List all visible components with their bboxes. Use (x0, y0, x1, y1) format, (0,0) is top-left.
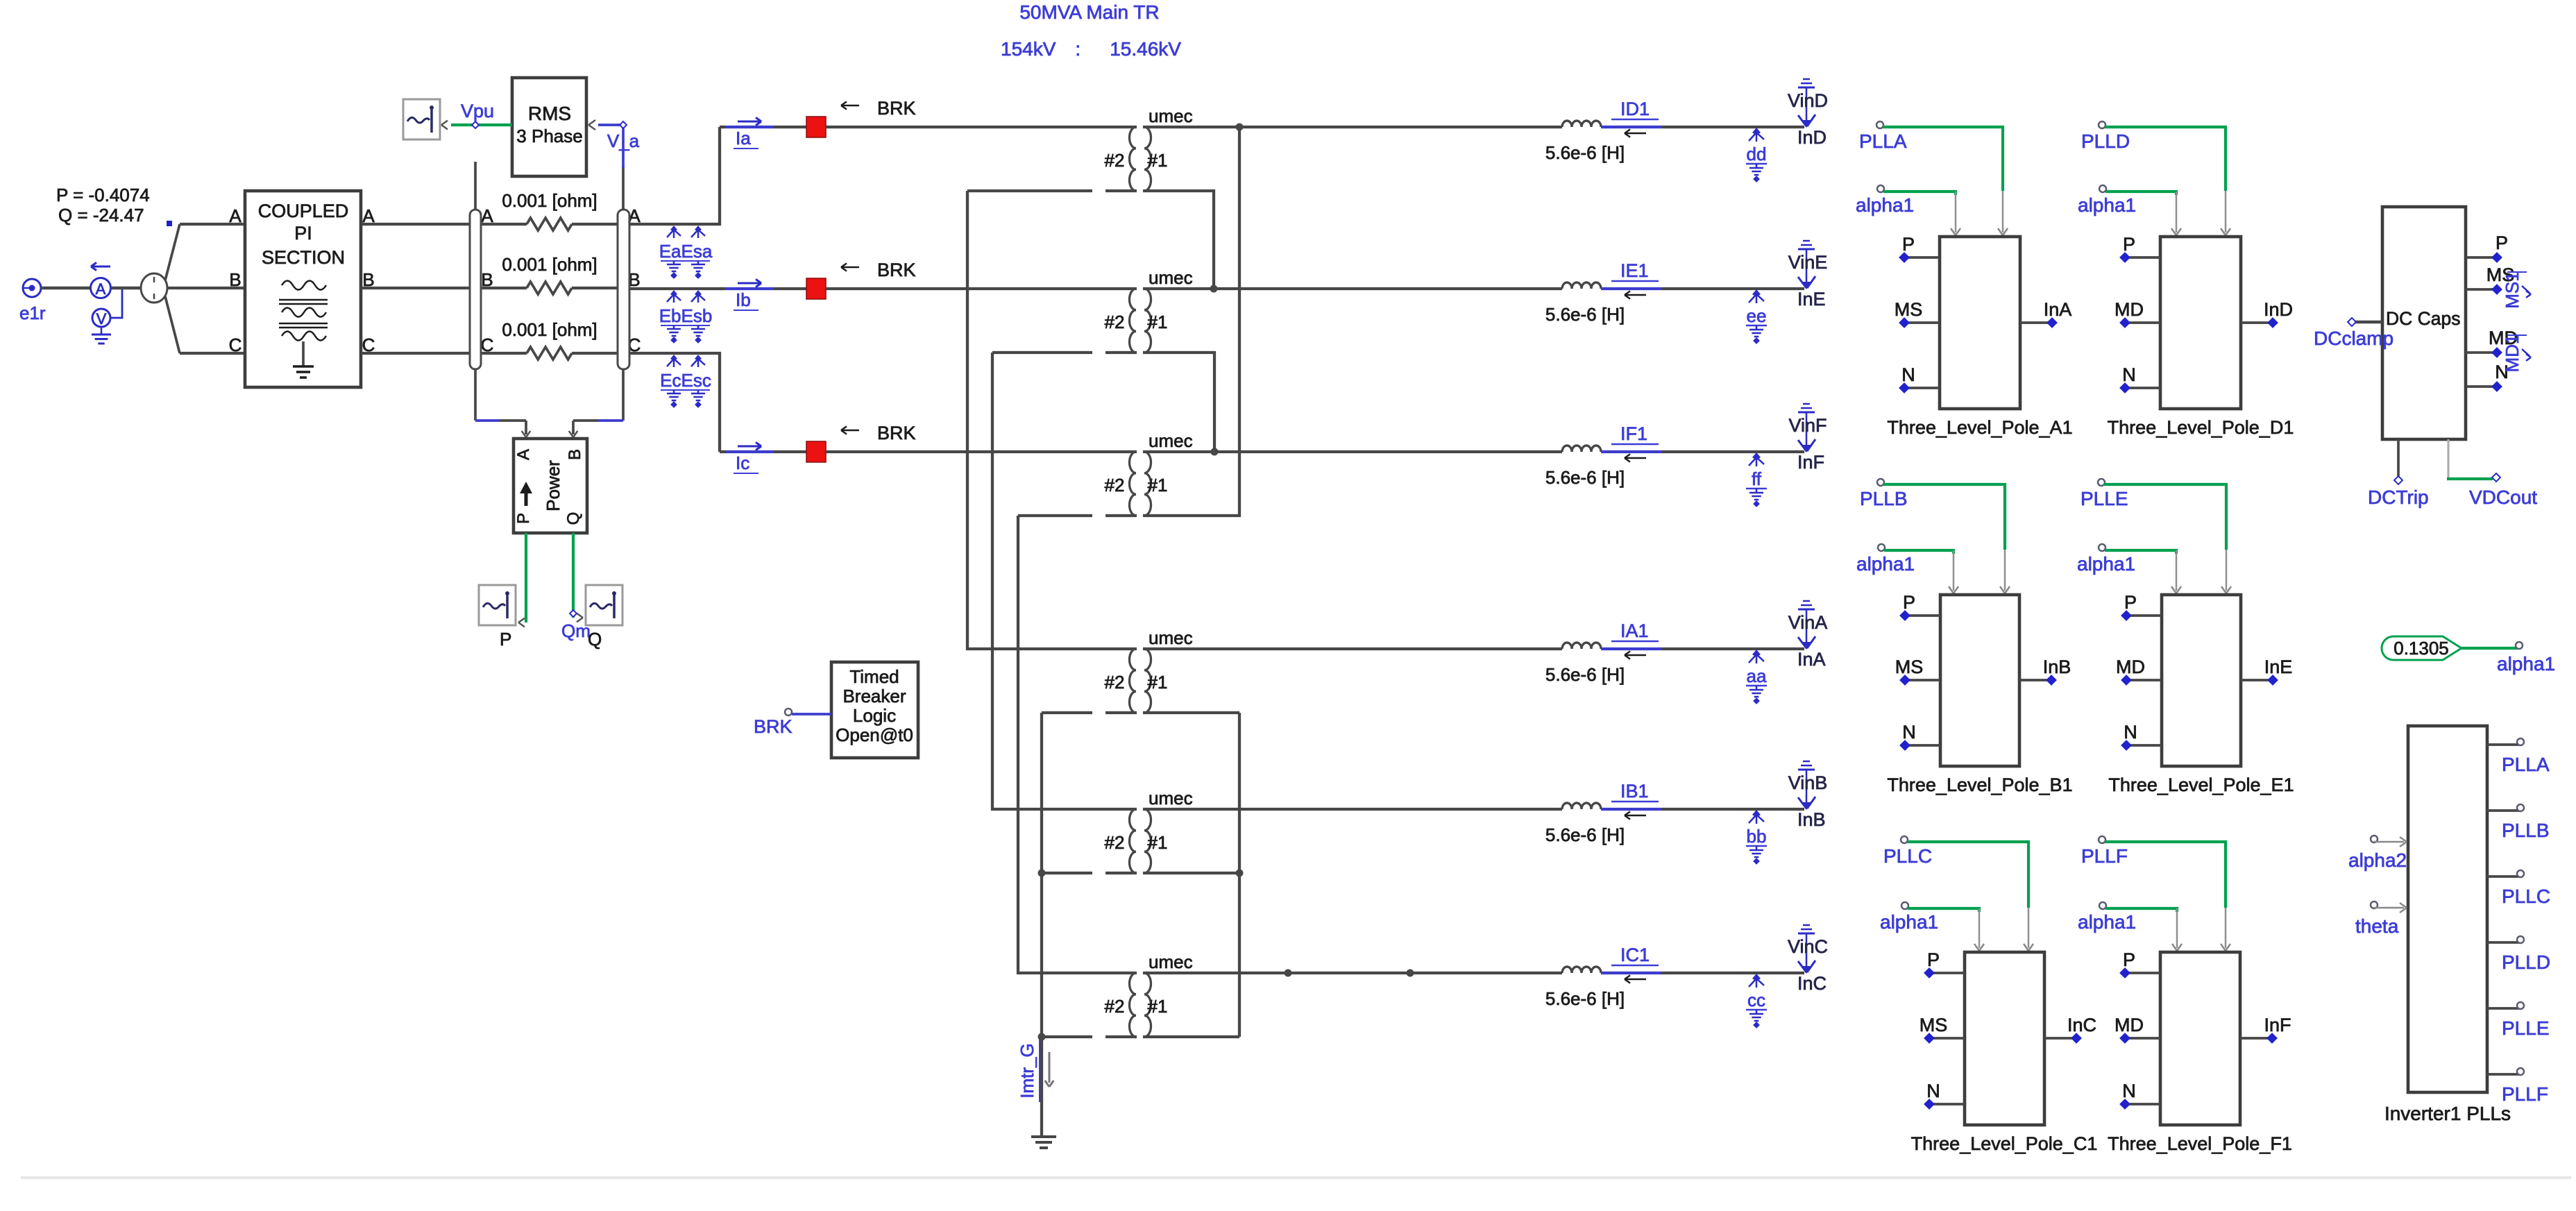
svg-text:umec: umec (1149, 627, 1193, 648)
svg-text:P: P (2495, 232, 2508, 253)
svg-text:N: N (1901, 364, 1915, 385)
svg-text:InF: InF (1797, 452, 1824, 473)
svg-text:MS1: MS1 (2502, 271, 2523, 308)
svg-text:PLLA: PLLA (1859, 130, 1907, 152)
svg-text:umec: umec (1149, 267, 1193, 288)
svg-text:MD: MD (2115, 299, 2144, 320)
svg-text:#1: #1 (1148, 475, 1168, 496)
svg-text:P = -0.4074: P = -0.4074 (56, 185, 150, 205)
svg-text:umec: umec (1149, 105, 1193, 126)
svg-text:VinE: VinE (1788, 252, 1828, 273)
svg-text:3 Phase: 3 Phase (516, 126, 582, 146)
svg-text:PLLF: PLLF (2081, 845, 2128, 867)
svg-text:InF: InF (2264, 1015, 2291, 1035)
svg-text:VinA: VinA (1788, 612, 1828, 633)
svg-text:bb: bb (1747, 826, 1767, 847)
svg-text:Imtr_G: Imtr_G (1017, 1043, 1037, 1098)
svg-text:theta: theta (2355, 915, 2399, 937)
svg-text:N: N (2122, 1081, 2136, 1101)
svg-text:Ib: Ib (736, 289, 751, 310)
svg-text:alpha1: alpha1 (1880, 911, 1938, 933)
svg-text:C: C (229, 334, 242, 355)
svg-text:RMS: RMS (528, 103, 571, 124)
svg-text:DC Caps: DC Caps (2386, 308, 2461, 329)
svg-text:Three_Level_Pole_F1: Three_Level_Pole_F1 (2108, 1133, 2292, 1154)
svg-text:Q: Q (564, 512, 583, 525)
svg-text:A: A (96, 280, 106, 298)
svg-text:5.6e-6 [H]: 5.6e-6 [H] (1545, 664, 1625, 685)
svg-text:umec: umec (1149, 951, 1193, 972)
svg-text:A: A (481, 205, 493, 226)
svg-text:IC1: IC1 (1620, 945, 1650, 965)
svg-text:Ia: Ia (736, 128, 751, 149)
svg-text:N: N (2124, 722, 2137, 743)
svg-text:umec: umec (1149, 788, 1193, 808)
svg-text:alpha1: alpha1 (1856, 194, 1914, 216)
svg-text:A: A (229, 205, 241, 226)
svg-text:Timed: Timed (849, 666, 899, 687)
svg-text:5.6e-6 [H]: 5.6e-6 [H] (1545, 824, 1625, 845)
svg-text:Power: Power (543, 460, 563, 511)
svg-text:#2: #2 (1105, 672, 1125, 693)
svg-text:Qm: Qm (561, 620, 591, 641)
svg-text:5.6e-6 [H]: 5.6e-6 [H] (1545, 142, 1625, 163)
svg-text:MD1: MD1 (2502, 334, 2523, 373)
svg-text:P: P (1902, 234, 1915, 255)
svg-text:VinB: VinB (1788, 772, 1828, 793)
svg-text:VinC: VinC (1788, 936, 1828, 957)
svg-text:#2: #2 (1105, 475, 1125, 496)
svg-text:P: P (2123, 234, 2135, 255)
svg-text:InA: InA (1797, 649, 1826, 670)
svg-text:InB: InB (2043, 657, 2071, 677)
svg-text:V_a: V_a (607, 130, 640, 151)
svg-text:#2: #2 (1105, 312, 1125, 332)
svg-text:Vpu: Vpu (461, 101, 494, 121)
svg-text:MS: MS (1920, 1015, 1948, 1035)
svg-text:N: N (2122, 364, 2136, 385)
svg-text:A: A (514, 449, 533, 460)
svg-text:#2: #2 (1105, 996, 1125, 1017)
svg-text:VinF: VinF (1788, 415, 1827, 436)
svg-text:B: B (566, 449, 584, 460)
svg-text:Q = -24.47: Q = -24.47 (58, 205, 144, 226)
svg-text:BRK: BRK (877, 260, 916, 280)
svg-text:#1: #1 (1148, 996, 1168, 1017)
svg-text:ee: ee (1747, 305, 1767, 326)
svg-text:P: P (500, 629, 511, 650)
svg-text:COUPLED: COUPLED (258, 201, 349, 221)
svg-text:VinD: VinD (1788, 90, 1828, 111)
svg-text:BRK: BRK (877, 423, 916, 443)
svg-text:P: P (514, 513, 533, 524)
svg-text:alpha1: alpha1 (2497, 653, 2555, 675)
svg-text:PLLB: PLLB (2502, 820, 2550, 841)
svg-text:PLLE: PLLE (2502, 1017, 2550, 1039)
svg-text:Three_Level_Pole_E1: Three_Level_Pole_E1 (2108, 774, 2294, 795)
svg-text:InD: InD (2264, 299, 2293, 320)
svg-text:PI: PI (294, 223, 312, 244)
svg-text:154kV : 15.46kV: 154kV : 15.46kV (1001, 38, 1181, 60)
svg-text:5.6e-6 [H]: 5.6e-6 [H] (1545, 988, 1625, 1009)
svg-text:Three_Level_Pole_A1: Three_Level_Pole_A1 (1887, 417, 2072, 438)
svg-text:ff: ff (1752, 468, 1762, 489)
svg-text:EaEsa: EaEsa (659, 241, 713, 262)
svg-text:Q: Q (588, 629, 602, 650)
svg-text:DCTrip: DCTrip (2368, 486, 2429, 508)
svg-text:IA1: IA1 (1620, 620, 1649, 641)
svg-text:alpha1: alpha1 (2077, 553, 2135, 575)
svg-text:InC: InC (1797, 973, 1827, 994)
svg-text:IB1: IB1 (1620, 781, 1649, 802)
svg-text:InE: InE (1797, 289, 1826, 310)
svg-text:alpha1: alpha1 (1856, 553, 1915, 575)
svg-text:MD: MD (2115, 1015, 2144, 1035)
svg-text:P: P (2124, 592, 2137, 613)
svg-text:InB: InB (1797, 809, 1826, 830)
svg-text:V: V (96, 310, 107, 328)
svg-text:5.6e-6 [H]: 5.6e-6 [H] (1545, 467, 1625, 488)
svg-text:EcEsc: EcEsc (660, 370, 711, 391)
svg-text:0.001 [ohm]: 0.001 [ohm] (502, 319, 597, 340)
svg-text:#1: #1 (1148, 312, 1168, 332)
svg-text:VDCout: VDCout (2469, 486, 2537, 508)
svg-text:PLLC: PLLC (2502, 886, 2550, 907)
svg-text:SECTION: SECTION (262, 247, 345, 268)
svg-text:PLLA: PLLA (2502, 754, 2550, 775)
svg-text:alpha2: alpha2 (2348, 849, 2407, 871)
svg-text:MD: MD (2116, 657, 2145, 677)
svg-text:Ic: Ic (736, 452, 749, 473)
svg-text:DCclamp: DCclamp (2314, 328, 2393, 349)
svg-text:#1: #1 (1148, 832, 1168, 853)
svg-text:0.001 [ohm]: 0.001 [ohm] (502, 190, 597, 211)
svg-text:N: N (1902, 722, 1916, 743)
svg-text:B: B (229, 269, 241, 290)
svg-text:IE1: IE1 (1620, 260, 1649, 281)
svg-text:0.1305: 0.1305 (2393, 638, 2449, 659)
svg-text:InA: InA (2044, 299, 2072, 320)
svg-text:P: P (1927, 949, 1940, 970)
svg-text:InC: InC (2067, 1015, 2096, 1035)
svg-text:#2: #2 (1105, 832, 1125, 853)
svg-text:Open@t0: Open@t0 (836, 725, 913, 745)
svg-text:PLLF: PLLF (2502, 1083, 2548, 1105)
svg-text:dd: dd (1747, 144, 1767, 164)
svg-text:5.6e-6 [H]: 5.6e-6 [H] (1545, 304, 1625, 325)
svg-text:#2: #2 (1105, 150, 1125, 171)
svg-text:Breaker: Breaker (842, 686, 906, 706)
svg-text:e1r: e1r (19, 303, 46, 323)
svg-text:MS: MS (1895, 657, 1924, 677)
svg-text:C: C (481, 334, 494, 355)
svg-text:0.001 [ohm]: 0.001 [ohm] (502, 254, 597, 275)
svg-text:PLLD: PLLD (2502, 951, 2550, 973)
svg-text:BRK: BRK (877, 98, 916, 119)
svg-text:PLLE: PLLE (2081, 488, 2128, 509)
svg-text:#1: #1 (1148, 150, 1168, 171)
svg-text:Three_Level_Pole_B1: Three_Level_Pole_B1 (1887, 774, 2072, 795)
svg-text:P: P (2123, 949, 2135, 970)
svg-text:InE: InE (2264, 657, 2293, 677)
svg-text:InD: InD (1797, 127, 1827, 148)
svg-text:Logic: Logic (853, 705, 896, 726)
svg-text:IF1: IF1 (1620, 423, 1647, 444)
svg-text:cc: cc (1747, 990, 1765, 1010)
svg-text:BRK: BRK (754, 716, 793, 737)
svg-text:50MVA Main TR: 50MVA Main TR (1019, 1, 1159, 23)
svg-text:alpha1: alpha1 (2078, 911, 2136, 933)
svg-text:PLLB: PLLB (1860, 488, 1908, 509)
svg-text:PLLC: PLLC (1883, 845, 1932, 867)
svg-text:ID1: ID1 (1620, 99, 1650, 119)
svg-text:P: P (1903, 592, 1915, 613)
svg-text:#1: #1 (1148, 672, 1168, 693)
svg-text:Inverter1 PLLs: Inverter1 PLLs (2384, 1103, 2511, 1124)
svg-text:Three_Level_Pole_D1: Three_Level_Pole_D1 (2108, 417, 2294, 438)
svg-text:umec: umec (1149, 430, 1193, 451)
svg-text:alpha1: alpha1 (2078, 194, 2136, 216)
svg-text:N: N (1926, 1081, 1940, 1101)
svg-text:aa: aa (1747, 666, 1767, 686)
svg-text:MS: MS (1895, 299, 1923, 320)
svg-text:PLLD: PLLD (2081, 130, 2130, 152)
svg-text:EbEsb: EbEsb (659, 305, 713, 326)
svg-text:Three_Level_Pole_C1: Three_Level_Pole_C1 (1911, 1133, 2098, 1154)
svg-text:B: B (481, 269, 493, 290)
